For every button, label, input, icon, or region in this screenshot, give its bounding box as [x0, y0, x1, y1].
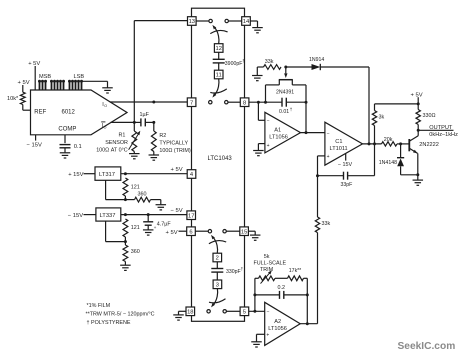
svg-text:TRIM: TRIM — [260, 267, 274, 273]
ground for A2 +input — [251, 342, 262, 347]
svg-text:+ 5V: + 5V — [171, 167, 183, 173]
svg-text:18: 18 — [187, 309, 193, 315]
resistor 330 collector load — [417, 104, 419, 110]
wire C-comp to ground — [64, 148, 66, 153]
svg-text:R2: R2 — [159, 133, 166, 139]
wire A2 non-inverting input to ground — [257, 333, 265, 335]
svg-text:12: 12 — [215, 46, 221, 52]
junction JFET source leg — [264, 101, 267, 104]
svg-text:0.2: 0.2 — [278, 285, 286, 291]
potentiometer 5k FULL-SCALE TRIM — [259, 276, 276, 281]
transistor Q1 2N4391 JFET reset switch — [285, 67, 287, 73]
junction ADJ node — [124, 198, 127, 201]
junction collector node — [417, 129, 420, 132]
wire A2 feedback left column — [254, 278, 256, 311]
pin box 3 — [213, 280, 222, 289]
svg-text:8: 8 — [243, 100, 246, 106]
svg-text:†: † — [241, 267, 244, 272]
svg-text:330Ω: 330Ω — [423, 113, 436, 119]
wire IO output to pin 7 — [110, 101, 187, 103]
pin box 13 — [188, 17, 197, 26]
resistor 3k pull-up — [372, 111, 376, 126]
svg-text:**TRW MTR-5/ − 120ppm/°C: **TRW MTR-5/ − 120ppm/°C — [86, 312, 155, 318]
wire 17k to right feedback column — [304, 277, 308, 279]
svg-text:− 15V: − 15V — [68, 213, 83, 219]
capacitor 0.2 feedback — [255, 294, 280, 296]
ground for R2 — [149, 155, 160, 160]
junction A2 output / feedback — [306, 322, 309, 325]
svg-text:360: 360 — [138, 191, 147, 197]
svg-text:33k: 33k — [322, 221, 331, 227]
pin box 18 — [186, 307, 195, 316]
junction +5V rail corner — [417, 102, 420, 105]
wire IO-bar output — [111, 121, 136, 123]
svg-text:5k: 5k — [264, 254, 270, 260]
svg-text:TYPICALLY: TYPICALLY — [159, 140, 188, 146]
wire R360 to ground — [151, 199, 161, 201]
pin box 2 — [213, 253, 222, 262]
junction IO-bar node — [133, 121, 136, 124]
LTC1043 switch wiper top section upper — [214, 27, 219, 44]
wire diode cathode to comparator output — [320, 66, 369, 68]
junction diode feedback at output — [368, 142, 371, 145]
wire pot to 17k — [275, 277, 288, 279]
svg-text:1N914: 1N914 — [309, 57, 324, 63]
svg-text:11: 11 — [216, 73, 222, 79]
+5V rail to output stage — [375, 103, 419, 105]
junction -5V rail / C 4.7uF — [147, 213, 150, 216]
resistor 360 (LT337 adj) — [123, 245, 128, 262]
wire OUTPUT — [418, 129, 453, 131]
svg-text:†: † — [290, 107, 293, 112]
ground for DAC digital inputs — [102, 88, 113, 93]
DAC digital input pins MSB..LSB — [40, 82, 82, 90]
junction base node — [399, 142, 402, 145]
pin box 14 — [242, 17, 251, 26]
svg-text:2N2222: 2N2222 — [419, 142, 439, 148]
wire pin 14 to ground — [250, 20, 257, 22]
svg-text:+: + — [327, 154, 330, 160]
resistor 33k JFET gate bias — [264, 65, 282, 70]
wire +15V to LT317 — [84, 173, 96, 175]
svg-text:LT317: LT317 — [99, 172, 115, 178]
wire C1 output line — [363, 143, 382, 145]
svg-text:FULL-SCALE: FULL-SCALE — [254, 260, 287, 266]
svg-text:+ 5V: + 5V — [18, 80, 30, 86]
resistor 20k base drive — [382, 142, 398, 146]
wire emitter to ground — [417, 175, 419, 180]
resistor 33k integrator feed — [315, 217, 319, 233]
C1 negative supply stub — [345, 154, 347, 161]
regulator U3 LT337 box — [96, 208, 121, 221]
wire -15V stub — [35, 135, 37, 141]
wire R2 to ground — [153, 152, 155, 155]
wire pin 15 to ground — [248, 230, 255, 232]
LTC1043 switch wiper top section lower — [214, 79, 219, 96]
svg-text:A1: A1 — [274, 128, 281, 134]
svg-text:0.1: 0.1 — [74, 144, 82, 150]
DAC U1 6012 body — [31, 90, 128, 135]
svg-text:2N4391: 2N4391 — [276, 90, 294, 96]
wire +5V to DAC top edge — [34, 66, 36, 90]
svg-text:†: † — [242, 59, 245, 64]
pin box 11 — [214, 70, 223, 79]
ground for COMP capacitor — [60, 153, 71, 158]
LTC1043 switch wiper bottom section lower — [213, 289, 218, 306]
wire R1 to ground — [133, 152, 135, 154]
svg-text:− 5V: − 5V — [171, 208, 183, 214]
svg-text:6012: 6012 — [62, 110, 76, 116]
svg-text:20k: 20k — [384, 137, 393, 143]
svg-text:3: 3 — [216, 282, 219, 288]
svg-text:6: 6 — [189, 229, 192, 235]
junction A1 inverting input branch — [257, 101, 260, 104]
junction 3k pull-up at output — [373, 142, 376, 145]
wire +5V down to R-ref — [22, 85, 24, 92]
regulator U2 LT317 box — [95, 167, 121, 180]
wire LT337 output -5V rail to pin 17 — [121, 214, 187, 216]
junction IO / R2 — [152, 101, 155, 104]
resistor 121 (LT317 adj divider) — [123, 178, 128, 196]
resistor R1 sensor (variable) — [133, 122, 135, 131]
wire A1 output to C1 — [301, 132, 325, 134]
svg-text:2: 2 — [216, 256, 219, 262]
LTC1043 switch row pins 6-15: contacts and wires — [195, 230, 208, 232]
LTC1043 outline box — [192, 8, 245, 321]
svg-text:100Ω (TRIM): 100Ω (TRIM) — [159, 148, 190, 154]
svg-text:O: O — [104, 104, 107, 108]
LTC1043 switch row pins 18-5: contacts and wires — [207, 310, 210, 313]
svg-text:4.7µF: 4.7µF — [157, 221, 172, 227]
svg-text:LTC1043: LTC1043 — [208, 156, 233, 162]
svg-text:+ 5V: + 5V — [411, 92, 423, 98]
pin box 17 — [187, 211, 196, 220]
svg-text:5: 5 — [243, 309, 246, 315]
diode D1 1N914 — [312, 64, 321, 70]
svg-text:3k: 3k — [379, 114, 385, 120]
ground for pin 15 — [250, 235, 261, 240]
capacitor 4.7uF on -5V — [147, 215, 149, 222]
junction LT337 ADJ node — [124, 240, 127, 243]
wire A2 output — [300, 323, 317, 325]
wire R360 lower to ground — [124, 262, 126, 265]
wire LT337 ADJ — [105, 221, 107, 242]
wire 10k to REF pin — [22, 105, 24, 111]
transistor Q2 2N2222 — [408, 139, 410, 151]
capacitor 0.01 integrator — [281, 98, 283, 107]
svg-text:10k*: 10k* — [7, 96, 19, 102]
pin box 12 — [214, 44, 223, 53]
resistor 360 (LT317 adj) — [135, 197, 151, 202]
wire IO-bar node up to pin 13 net — [133, 21, 135, 123]
svg-text:15: 15 — [241, 229, 247, 235]
wire A1 non-inverting input to ground — [258, 143, 265, 145]
svg-text:33k: 33k — [265, 59, 274, 65]
svg-text:R1: R1 — [119, 133, 126, 139]
pin box 6 — [187, 227, 196, 236]
op-amp A1 LT1056 triangle — [265, 112, 301, 153]
capacitor 0.1 on COMP — [60, 144, 71, 146]
ground for 33k — [252, 76, 262, 81]
junction A2 input node — [253, 310, 256, 313]
resistor R2 trim — [153, 122, 155, 131]
svg-text:1N4148: 1N4148 — [379, 160, 397, 166]
svg-text:121: 121 — [131, 225, 140, 231]
pin box 8 — [240, 98, 249, 107]
LTC1043 switch row pins 13-14: wire and contacts — [196, 20, 209, 22]
wire 20k to base node — [397, 143, 409, 145]
ground for R1 — [129, 154, 140, 159]
wire 4.7uF to ground — [147, 225, 149, 229]
junction A1 output / feedback column — [305, 131, 308, 134]
ground for LT337 divider — [120, 265, 130, 270]
svg-text:SENSOR: SENSOR — [105, 140, 128, 146]
svg-text:100Ω AT 0°C: 100Ω AT 0°C — [96, 148, 128, 154]
wire LT317 ADJ — [105, 180, 107, 199]
resistor 17k** feedback — [288, 276, 304, 281]
svg-text:O: O — [104, 126, 107, 130]
capacitor 330pF flying (lower) — [216, 262, 218, 268]
capacitor 33pF hysteresis — [318, 175, 344, 177]
resistor 121 (LT337 adj divider) — [123, 219, 128, 237]
diode D2 1N4148 base clamp — [400, 144, 402, 158]
svg-text:13: 13 — [189, 19, 195, 25]
wire feedback top run — [255, 277, 259, 279]
wire digital inputs to ground — [82, 80, 108, 82]
svg-text:17: 17 — [188, 213, 194, 219]
svg-text:A2: A2 — [274, 319, 281, 325]
ground for output stage — [413, 180, 424, 185]
svg-text:0.01: 0.01 — [279, 109, 289, 115]
junction gate node — [284, 66, 287, 69]
wire gate node to diode — [286, 66, 312, 68]
svg-text:360: 360 — [131, 249, 140, 255]
ground for pin 14 — [252, 28, 263, 33]
svg-text:− 15V: − 15V — [27, 142, 42, 148]
pin box 5 — [240, 307, 249, 316]
capacitor 3900pF flying (upper) — [218, 52, 220, 59]
resistor 10k* reference — [20, 92, 25, 104]
svg-text:+ 5V: + 5V — [166, 230, 178, 236]
wire ADJ node down — [124, 237, 126, 245]
wire +5V to pin 6 — [179, 230, 187, 232]
svg-text:121: 121 — [131, 185, 140, 191]
LTC1043 switch row pins 7-8: contacts and wires — [209, 101, 212, 104]
svg-text:† POLYSTYRENE: † POLYSTYRENE — [87, 320, 131, 326]
wire diode to emitter node — [401, 174, 418, 176]
svg-text:1µF: 1µF — [140, 112, 150, 118]
comparator C1 LT1011 triangle — [325, 122, 363, 165]
junction +5V rail / R 121 — [124, 172, 127, 175]
svg-text:330pF: 330pF — [226, 269, 241, 275]
svg-text:7: 7 — [190, 100, 193, 106]
junction 0.2 cap right — [306, 293, 309, 296]
svg-text:−: − — [267, 119, 270, 125]
svg-text:+ 15V: + 15V — [68, 172, 83, 178]
svg-text:MSB: MSB — [39, 74, 51, 80]
svg-text:3900pF: 3900pF — [225, 61, 243, 67]
junction cap to R2 column — [152, 121, 155, 124]
svg-text:C1: C1 — [335, 139, 342, 145]
wire pin 5 to A2 inverting input — [249, 310, 265, 312]
ground for A1 +input — [253, 151, 264, 156]
svg-text:14: 14 — [243, 19, 250, 25]
ground for 4.7uF — [143, 230, 154, 235]
svg-text:REF: REF — [34, 110, 46, 116]
pin box 15 — [240, 227, 249, 236]
svg-text:+: + — [267, 143, 270, 149]
ground for pin 18 — [173, 315, 184, 320]
wire C1 +input to feedback node — [318, 155, 325, 157]
svg-text:33pF: 33pF — [341, 182, 353, 188]
wire 33k to ground — [257, 66, 263, 68]
junction C1 +input node — [316, 174, 319, 177]
junction 0.2 cap left — [253, 293, 256, 296]
wire to A1 inverting input — [257, 102, 259, 120]
svg-text:LT1011: LT1011 — [330, 146, 348, 152]
svg-text:LT337: LT337 — [100, 213, 116, 219]
junction -5V rail / R 121 — [124, 213, 127, 216]
wire LT317 output +5V rail to pin 4 — [121, 173, 187, 175]
op-amp A2 LT1056 triangle — [265, 302, 301, 345]
svg-text:+ 5V: + 5V — [28, 61, 40, 67]
junction cap to output column — [305, 101, 308, 104]
wire -15V to LT337 — [84, 214, 96, 216]
svg-text:SeekIC.com: SeekIC.com — [398, 341, 456, 352]
wire pin 18 to ground — [179, 310, 187, 312]
svg-text:− 15V: − 15V — [338, 162, 353, 168]
svg-text:OUTPUT: OUTPUT — [429, 125, 453, 131]
wire COMP to C-comp — [64, 135, 66, 143]
svg-text:*1% FILM: *1% FILM — [87, 303, 111, 309]
svg-text:LT1056: LT1056 — [269, 135, 288, 141]
svg-text:0kHz–1kHz: 0kHz–1kHz — [429, 132, 458, 138]
LTC1043 switch wiper bottom section upper — [213, 237, 218, 253]
svg-text:+: + — [266, 333, 269, 339]
pin box 4 — [187, 170, 196, 179]
svg-text:COMP: COMP — [58, 127, 76, 133]
ground for LT317 divider — [156, 205, 167, 210]
pin box 7 — [187, 98, 196, 107]
svg-text:17k**: 17k** — [289, 268, 301, 274]
svg-text:−: − — [267, 309, 270, 315]
wire A2 output up to 33k — [317, 233, 319, 324]
svg-text:LT1056: LT1056 — [268, 326, 287, 332]
junction emitter node — [416, 173, 419, 176]
svg-text:LSB: LSB — [74, 74, 85, 80]
capacitor 1uF between IO-bar and IO/R2 node — [135, 121, 141, 123]
wire pin 8 to A1 input node — [249, 101, 282, 103]
wire ADJ node to R 360 — [124, 196, 126, 200]
svg-text:−: − — [327, 131, 330, 137]
